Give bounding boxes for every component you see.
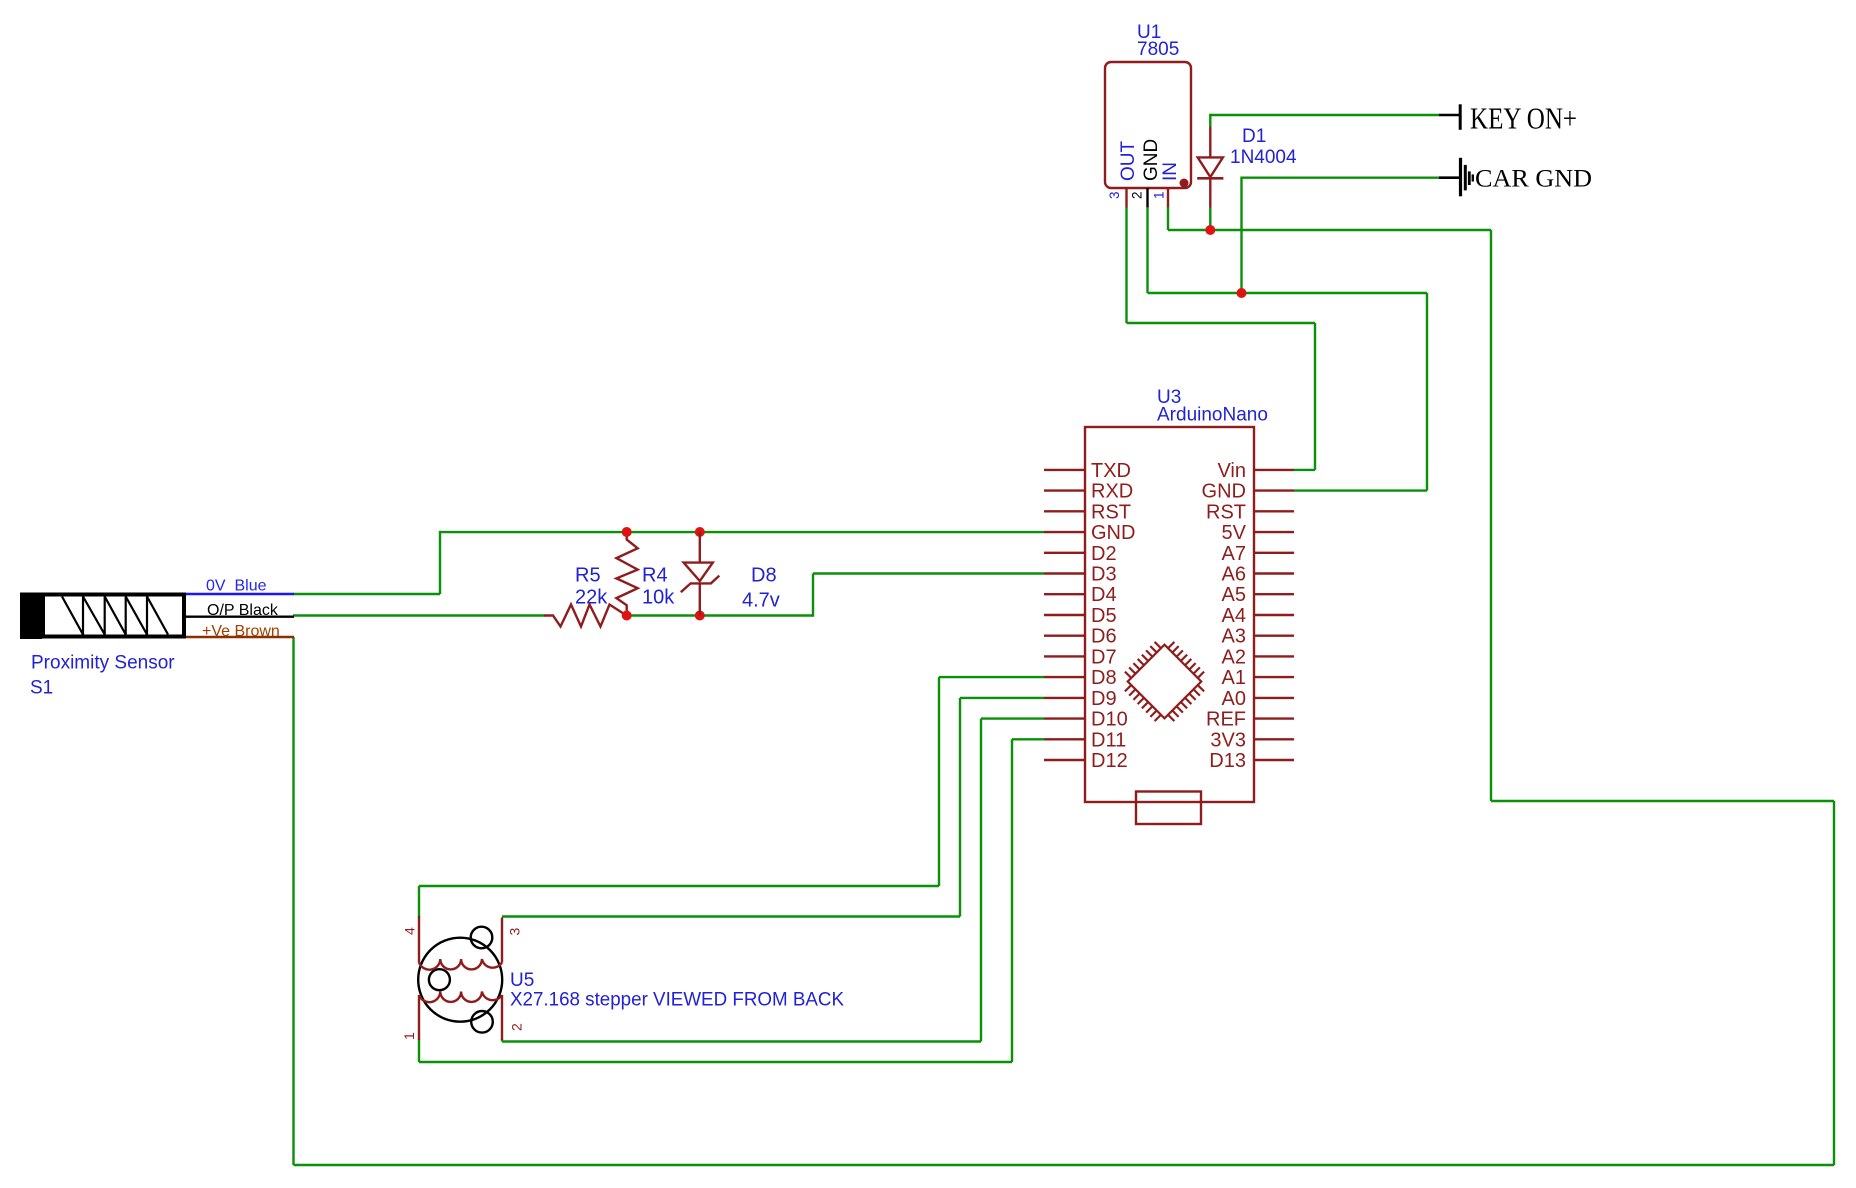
svg-text:R5: R5 [575, 565, 601, 587]
U3 pin D12 [1044, 750, 1128, 772]
junction: bottom of D8 [695, 611, 705, 621]
svg-text:D13: D13 [1209, 750, 1246, 772]
U5 pin 2 lead [501, 995, 503, 1040]
U3 pin D6 [1044, 626, 1117, 648]
resistor R5 [544, 605, 627, 627]
R5 value 22k [575, 587, 608, 609]
wire: U1 pin3 OUT down [1125, 207, 1127, 323]
U3 pin D10 [1044, 709, 1128, 731]
wire: U3 D11 pin run [1012, 738, 1044, 740]
U3 pin A5 [1222, 584, 1294, 606]
svg-text:GND: GND [1141, 139, 1162, 181]
proximity sensor S1 cap [20, 593, 42, 640]
U5 coil A (pins 4-3) [419, 959, 502, 970]
U3 pin D11 [1044, 729, 1126, 751]
wire: D9 net vertical [959, 698, 961, 917]
wire: GND net to U3 GND left pin [440, 531, 1044, 533]
U3 pin A6 [1222, 564, 1294, 586]
U3 pin REF [1206, 709, 1294, 731]
CAR GND terminal bar 2 [1464, 165, 1467, 191]
wire: drop to U5 pin4 [418, 886, 420, 917]
U3 pin Vin [1217, 460, 1294, 482]
wire: D11 net vertical [1011, 739, 1013, 1062]
wire: GND net horizontal to 1427 [1148, 292, 1428, 294]
junction: top of D8 [695, 527, 705, 537]
U1 pin name IN [1160, 162, 1181, 181]
U5 pin number 2 [509, 1023, 525, 1031]
wire: sensor O/P to R5 [293, 614, 545, 616]
S1 wire label +Ve Brown [202, 623, 280, 640]
svg-text:D6: D6 [1091, 626, 1117, 648]
wire: 12V net far right vertical [1833, 801, 1835, 1165]
zener diode D8 top lead [699, 532, 701, 563]
svg-text:U5: U5 [510, 970, 534, 991]
U5 pin 1 lead [418, 995, 420, 1040]
U3 pin A2 [1222, 646, 1294, 668]
U3 USB connector glyph [1136, 792, 1201, 825]
svg-text:D4: D4 [1091, 584, 1117, 606]
stepper U5 body circle [418, 938, 502, 1022]
diode D1 cathode lead [1209, 178, 1211, 208]
svg-text:D9: D9 [1091, 688, 1117, 710]
svg-text:R4: R4 [642, 565, 668, 587]
svg-text:D1: D1 [1242, 126, 1266, 147]
U3 pin 5V [1222, 522, 1294, 544]
svg-text:O/P Black: O/P Black [207, 602, 279, 619]
CAR GND terminal bar 3 [1468, 171, 1471, 185]
U5 pin 4 lead [418, 916, 420, 963]
wire: U1 pin2 GND down [1146, 207, 1148, 293]
KEY ON+ terminal bar [1459, 104, 1462, 130]
net label KEY ON+ [1470, 101, 1577, 136]
wire: D8 net bottom run to U5 pin4 [419, 885, 939, 887]
KEY ON+ terminal lead [1439, 114, 1459, 117]
wire: D10 net run to U5 pin2 [502, 1040, 981, 1042]
U3 value ArduinoNano [1157, 405, 1268, 426]
U1 pin name GND [1141, 139, 1162, 181]
svg-text:D7: D7 [1091, 646, 1117, 668]
svg-text:S1: S1 [30, 678, 53, 699]
svg-text:1N4004: 1N4004 [1230, 147, 1297, 168]
svg-text:22k: 22k [575, 587, 608, 609]
U3 QFP chip glyph [1115, 632, 1214, 731]
wire: signal to U3 D3 pin [813, 572, 1044, 574]
wire: 5V net vertical to Vin [1314, 323, 1316, 470]
CAR GND terminal lead [1439, 176, 1459, 179]
wire: D1 cathode down to 12V net [1209, 208, 1211, 230]
wire: 12V net jog right [1491, 800, 1834, 802]
S1 pin 0V blue wire [186, 593, 294, 595]
svg-text:D12: D12 [1091, 750, 1128, 772]
svg-text:3: 3 [507, 928, 523, 936]
R4 reference designator [642, 565, 668, 587]
svg-text:A3: A3 [1222, 626, 1246, 648]
svg-text:4.7v: 4.7v [742, 590, 780, 612]
diode D1 anode lead [1209, 126, 1211, 157]
U3 pin D9 [1044, 688, 1117, 710]
svg-text:Proximity Sensor: Proximity Sensor [31, 653, 175, 674]
CAR GND terminal bar 1 [1459, 158, 1462, 197]
svg-text:3: 3 [1107, 191, 1122, 199]
svg-text:D10: D10 [1091, 709, 1128, 731]
svg-text:10k: 10k [642, 587, 675, 609]
U3 pin GND left [1044, 522, 1135, 544]
D8 reference designator [751, 565, 777, 587]
wire: CAR GND branch down to GND net [1240, 177, 1242, 294]
wire: 12V net right vertical [1490, 230, 1492, 801]
svg-text:3V3: 3V3 [1210, 729, 1246, 751]
wire: 12V net up to sensor +Ve [292, 637, 294, 1165]
wire: rise to U5 pin2 [501, 1039, 503, 1042]
wire: U3 D8 pin run [939, 676, 1044, 678]
D1 value 1N4004 [1230, 147, 1297, 168]
diode D1 triangle [1198, 157, 1223, 177]
U3 pin GND right [1202, 481, 1294, 503]
U3 pin D7 [1044, 646, 1117, 668]
U3 pin RXD [1044, 481, 1133, 503]
wire: 5V net to U3 Vin pin [1294, 469, 1315, 471]
svg-text:4: 4 [402, 927, 418, 935]
svg-text:A7: A7 [1222, 543, 1246, 565]
svg-text:0V Blue: 0V Blue [206, 578, 267, 595]
S1 pin +Ve brown wire [186, 636, 294, 638]
U5 coil B (pins 1-2) [419, 992, 502, 1003]
svg-text:D11: D11 [1091, 729, 1126, 751]
wire: GND net to U3 GND pin [1294, 489, 1427, 491]
svg-text:1: 1 [401, 1032, 417, 1040]
junction: GND net at CAR GND branch [1237, 288, 1247, 298]
S1 reference designator [30, 678, 53, 699]
svg-text:IN: IN [1160, 162, 1181, 181]
svg-text:GND: GND [1202, 481, 1246, 503]
svg-text:RST: RST [1206, 501, 1246, 523]
svg-text:TXD: TXD [1091, 460, 1131, 482]
wire: D11 net run to U5 pin1 [419, 1061, 1012, 1063]
svg-text:D5: D5 [1091, 605, 1117, 627]
U3 pin 3V3 [1210, 729, 1294, 751]
svg-text:REF: REF [1206, 709, 1246, 731]
S1 pin O/P black wire [186, 616, 294, 618]
U1 pin number 2 [1130, 191, 1145, 199]
wire: GND net down right side [1426, 293, 1428, 491]
U1 pin number 3 [1107, 191, 1122, 199]
D1 reference designator [1242, 126, 1266, 147]
U1 pin 3 lead [1125, 188, 1127, 208]
R5 reference designator [575, 565, 601, 587]
wire: D9 net run to U5 pin3 [502, 915, 960, 917]
proximity sensor S1 body [43, 595, 184, 637]
U5 value label [510, 990, 844, 1011]
wire: D10 net vertical [980, 719, 982, 1042]
svg-text:RXD: RXD [1091, 481, 1133, 503]
wire: CAR GND horizontal [1242, 176, 1440, 178]
svg-text:KEY ON+: KEY ON+ [1470, 101, 1577, 136]
wire: U1 pin1 IN down [1167, 207, 1169, 230]
svg-text:D8: D8 [751, 565, 777, 587]
U5 shaft circle top [471, 927, 493, 949]
svg-text:ArduinoNano: ArduinoNano [1157, 405, 1268, 426]
U3 pin RST right [1206, 501, 1294, 523]
resistor R4 [616, 532, 637, 616]
U1 pin 2 lead [1146, 188, 1148, 208]
wire: 12V net bottom run [294, 1164, 1835, 1166]
wire: KEY ON+ drop to D1 anode [1209, 114, 1211, 127]
wire: sensor 0V horizontal [293, 593, 440, 595]
U3 pin D2 [1044, 543, 1117, 565]
svg-text:X27.168 stepper VIEWED FROM BA: X27.168 stepper VIEWED FROM BACK [510, 990, 844, 1011]
U3 pin D13 [1209, 750, 1294, 772]
svg-text:2: 2 [1130, 191, 1145, 199]
wire: 5V net horizontal [1127, 322, 1316, 324]
U3 pin TXD [1044, 460, 1131, 482]
svg-text:OUT: OUT [1118, 141, 1139, 182]
wire: rise from U5 pin1 [418, 1039, 420, 1062]
wire: U3 D10 pin run [981, 717, 1044, 719]
S1 wire label 0V Blue [206, 578, 267, 595]
svg-text:A1: A1 [1222, 667, 1246, 689]
svg-text:D8: D8 [1091, 667, 1117, 689]
voltage regulator U1 body [1105, 62, 1191, 188]
U3 pin A4 [1222, 605, 1294, 627]
junction: bottom of R4 [622, 611, 632, 621]
svg-text:+Ve Brown: +Ve Brown [202, 623, 280, 640]
svg-text:D2: D2 [1091, 543, 1117, 565]
wire: D8 net vertical [938, 677, 940, 886]
junction: top of R4 [622, 527, 632, 537]
S1 name label Proximity Sensor [31, 653, 175, 674]
U1 pin number 1 [1152, 191, 1167, 199]
net label CAR GND [1475, 166, 1592, 193]
U3 pin A1 [1222, 667, 1294, 689]
zener diode D8 bottom lead [699, 583, 701, 615]
zener diode D8 bar with wings [681, 576, 720, 593]
zener diode D8 triangle [684, 563, 713, 582]
U3 pin D5 [1044, 605, 1117, 627]
svg-text:A2: A2 [1222, 646, 1246, 668]
U3 pin D3 [1044, 564, 1117, 586]
svg-text:Vin: Vin [1217, 460, 1246, 482]
U1 pin name OUT [1118, 141, 1139, 182]
U5 pin 3 lead [501, 918, 503, 963]
svg-text:CAR GND: CAR GND [1475, 166, 1592, 193]
junction: 12V net at D1 [1205, 225, 1215, 235]
CAR GND terminal bar 4 [1472, 174, 1474, 181]
Arduino Nano U3 body [1085, 427, 1254, 802]
U1 pin 1 lead [1167, 188, 1169, 208]
U1 reference designator [1137, 22, 1161, 43]
U3 pin RST left [1044, 501, 1131, 523]
U5 pin number 3 [507, 928, 523, 936]
U5 pin number 1 [401, 1032, 417, 1040]
wire: sensor 0V to GND vertical [439, 531, 441, 594]
U3 pin A7 [1222, 543, 1294, 565]
U3 pin D8 [1044, 667, 1117, 689]
U3 pin D4 [1044, 584, 1117, 606]
S1 wire label O/P Black [207, 602, 279, 619]
R4 value 10k [642, 587, 675, 609]
U5 pin number 4 [402, 927, 418, 935]
svg-text:2: 2 [509, 1023, 525, 1031]
svg-text:5V: 5V [1222, 522, 1247, 544]
U3 pin A3 [1222, 626, 1294, 648]
U3 pin A0 [1222, 688, 1294, 710]
U3 reference designator [1157, 387, 1181, 408]
svg-text:1: 1 [1152, 191, 1167, 199]
svg-text:A6: A6 [1222, 564, 1246, 586]
wire: KEY ON+ horizontal [1210, 114, 1439, 116]
S1 thread hatch [62, 597, 168, 635]
U1 pin 1 marker dot [1180, 179, 1189, 188]
svg-text:RST: RST [1091, 501, 1131, 523]
svg-text:A4: A4 [1222, 605, 1246, 627]
diode D1 cathode bar [1197, 177, 1223, 180]
U5 shaft circle bottom [471, 1011, 493, 1033]
svg-text:GND: GND [1091, 522, 1135, 544]
wire: U3 D9 pin run [960, 697, 1044, 699]
wire: signal up jog to D3 [812, 574, 814, 617]
U5 reference designator [510, 970, 534, 991]
U5 rotor circle [429, 969, 450, 990]
svg-text:7805: 7805 [1137, 39, 1179, 60]
wire: signal between R4 and D8 bottom [627, 614, 813, 616]
svg-text:D3: D3 [1091, 564, 1117, 586]
svg-text:A0: A0 [1222, 688, 1246, 710]
wire: 12V net horizontal [1168, 229, 1491, 231]
U1 value 7805 [1137, 39, 1179, 60]
svg-text:A5: A5 [1222, 584, 1246, 606]
D8 value 4.7v [742, 590, 780, 612]
